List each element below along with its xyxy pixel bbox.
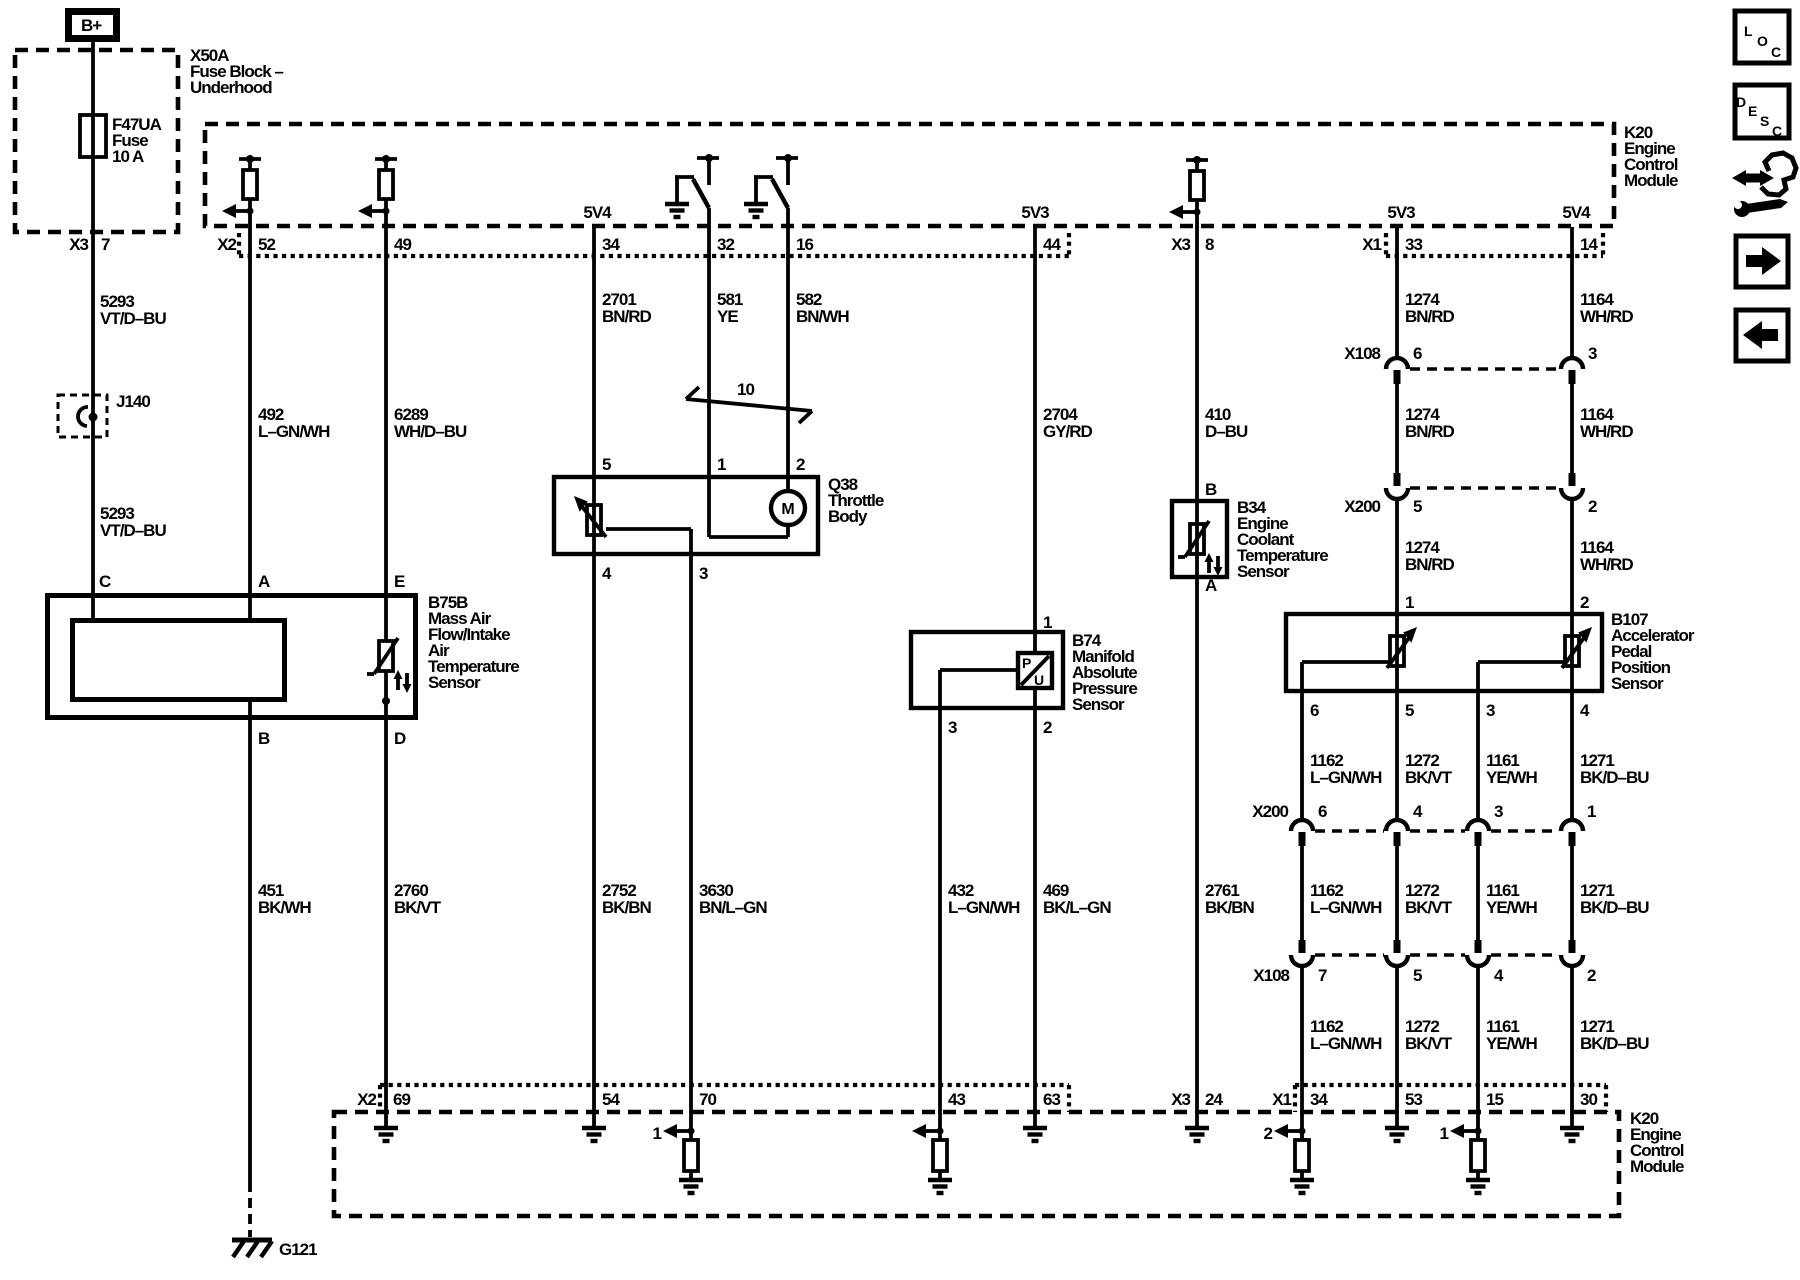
svg-text:YE: YE [717,307,738,326]
svg-text:70: 70 [699,1090,716,1109]
svg-text:YE/WH: YE/WH [1486,1034,1537,1053]
svg-text:BN/WH: BN/WH [796,307,849,326]
svg-text:34: 34 [602,235,620,254]
svg-text:69: 69 [393,1090,410,1109]
svg-text:WH/D–BU: WH/D–BU [394,422,467,441]
svg-text:8: 8 [1205,235,1214,254]
svg-text:44: 44 [1043,235,1061,254]
svg-text:BK/WH: BK/WH [258,898,311,917]
svg-text:BK/VT: BK/VT [1405,768,1453,787]
svg-text:1: 1 [717,455,726,474]
svg-text:M: M [781,501,794,518]
svg-text:5V4: 5V4 [583,203,612,222]
svg-text:24: 24 [1205,1090,1223,1109]
svg-text:BN/RD: BN/RD [602,307,652,326]
svg-text:3: 3 [1588,344,1597,363]
svg-text:32: 32 [717,235,734,254]
svg-text:5V4: 5V4 [1562,203,1591,222]
svg-text:BK/L–GN: BK/L–GN [1043,898,1111,917]
svg-text:X108: X108 [1344,344,1380,363]
svg-text:5: 5 [1405,701,1414,720]
svg-text:5: 5 [1413,497,1422,516]
svg-text:D: D [394,729,406,748]
svg-text:Sensor: Sensor [1072,695,1125,714]
svg-text:2: 2 [1580,593,1589,612]
svg-text:C: C [99,572,111,591]
svg-text:BK/VT: BK/VT [1405,898,1453,917]
svg-text:L–GN/WH: L–GN/WH [1310,1034,1382,1053]
svg-text:1: 1 [1440,1124,1449,1143]
svg-text:X1: X1 [1362,235,1381,254]
svg-text:X2: X2 [217,235,236,254]
svg-text:3: 3 [699,564,708,583]
svg-text:BN/L–GN: BN/L–GN [699,898,767,917]
svg-text:53: 53 [1405,1090,1422,1109]
svg-text:L: L [1744,23,1753,39]
svg-text:1: 1 [653,1124,662,1143]
svg-text:Sensor: Sensor [1611,674,1664,693]
svg-text:1: 1 [1043,613,1052,632]
svg-text:Sensor: Sensor [428,673,481,692]
svg-text:E: E [394,572,405,591]
svg-text:VT/D–BU: VT/D–BU [100,521,166,540]
svg-text:D–BU: D–BU [1205,422,1248,441]
svg-text:VT/D–BU: VT/D–BU [100,309,166,328]
svg-text:X200: X200 [1344,497,1380,516]
svg-text:1: 1 [1587,802,1596,821]
svg-text:Underhood: Underhood [190,78,272,97]
svg-text:D: D [1736,94,1746,110]
svg-text:C: C [1771,44,1781,60]
svg-text:BK/BN: BK/BN [602,898,652,917]
svg-text:2: 2 [1043,718,1052,737]
svg-text:2: 2 [1588,497,1597,516]
svg-text:Module: Module [1624,171,1678,190]
svg-text:Sensor: Sensor [1237,562,1290,581]
svg-text:WH/RD: WH/RD [1580,422,1633,441]
svg-text:1: 1 [1405,593,1414,612]
svg-text:15: 15 [1486,1090,1503,1109]
svg-text:L–GN/WH: L–GN/WH [948,898,1020,917]
svg-text:P: P [1022,655,1031,671]
svg-text:L–GN/WH: L–GN/WH [1310,768,1382,787]
svg-text:BK/BN: BK/BN [1205,898,1255,917]
svg-text:BK/D–BU: BK/D–BU [1580,898,1649,917]
svg-text:BK/VT: BK/VT [394,898,442,917]
svg-text:16: 16 [796,235,813,254]
svg-text:2: 2 [1264,1124,1273,1143]
svg-text:34: 34 [1310,1090,1328,1109]
svg-text:S: S [1760,113,1769,129]
svg-text:X200: X200 [1252,802,1288,821]
svg-text:X3: X3 [1171,1090,1190,1109]
svg-text:5V3: 5V3 [1387,203,1415,222]
svg-text:54: 54 [602,1090,620,1109]
svg-text:6: 6 [1413,344,1422,363]
svg-text:A: A [258,572,270,591]
svg-text:2: 2 [1587,966,1596,985]
svg-text:C: C [1772,123,1782,139]
svg-text:B: B [1205,480,1217,499]
svg-text:10 A: 10 A [112,147,144,166]
svg-text:BK/D–BU: BK/D–BU [1580,1034,1649,1053]
svg-text:33: 33 [1405,235,1422,254]
svg-text:14: 14 [1580,235,1598,254]
svg-text:O: O [1757,33,1768,49]
svg-text:BN/RD: BN/RD [1405,555,1455,574]
svg-text:7: 7 [101,235,110,254]
svg-text:30: 30 [1580,1090,1597,1109]
svg-text:X108: X108 [1253,966,1289,985]
svg-text:3: 3 [948,718,957,737]
svg-text:2: 2 [796,455,805,474]
svg-text:Body: Body [828,507,868,526]
svg-text:X2: X2 [357,1090,376,1109]
svg-text:L–GN/WH: L–GN/WH [258,422,330,441]
svg-text:6: 6 [1318,802,1327,821]
svg-text:L–GN/WH: L–GN/WH [1310,898,1382,917]
svg-text:BN/RD: BN/RD [1405,422,1455,441]
svg-text:G121: G121 [279,1240,317,1259]
svg-text:43: 43 [948,1090,965,1109]
svg-text:10: 10 [737,380,754,399]
svg-text:7: 7 [1318,966,1327,985]
svg-text:B+: B+ [81,16,102,35]
svg-text:E: E [1748,103,1757,119]
svg-text:BK/D–BU: BK/D–BU [1580,768,1649,787]
svg-text:BK/VT: BK/VT [1405,1034,1453,1053]
svg-text:5V3: 5V3 [1021,203,1049,222]
svg-text:Module: Module [1630,1157,1684,1176]
svg-text:3: 3 [1486,701,1495,720]
svg-text:52: 52 [258,235,275,254]
svg-text:6: 6 [1310,701,1319,720]
svg-text:3: 3 [1494,802,1503,821]
svg-text:WH/RD: WH/RD [1580,307,1633,326]
svg-text:U: U [1034,672,1044,688]
svg-text:B: B [258,729,270,748]
svg-text:BN/RD: BN/RD [1405,307,1455,326]
svg-text:X3: X3 [1171,235,1190,254]
svg-text:5: 5 [602,455,611,474]
svg-text:J140: J140 [116,392,150,411]
svg-text:63: 63 [1043,1090,1060,1109]
svg-text:X3: X3 [69,235,88,254]
svg-text:WH/RD: WH/RD [1580,555,1633,574]
svg-text:A: A [1205,576,1217,595]
svg-text:GY/RD: GY/RD [1043,422,1093,441]
svg-text:5: 5 [1413,966,1422,985]
svg-text:YE/WH: YE/WH [1486,898,1537,917]
svg-text:49: 49 [394,235,411,254]
svg-text:YE/WH: YE/WH [1486,768,1537,787]
svg-text:X1: X1 [1272,1090,1291,1109]
